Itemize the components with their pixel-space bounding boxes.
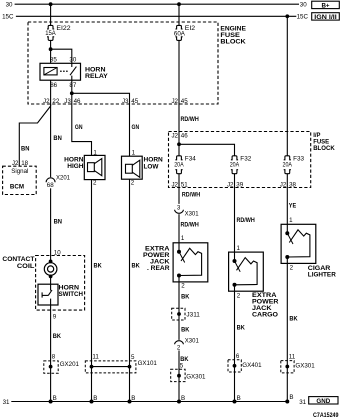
fuse F32 20A: [231, 156, 238, 174]
GND box: [309, 397, 338, 404]
connector X201: [46, 178, 55, 182]
fuse F34 20A: [175, 156, 182, 174]
svg-text:HIGH: HIGH: [67, 163, 84, 170]
wire rail30 to fuse EI22: [50, 4, 52, 25]
svg-text:2: 2: [177, 344, 181, 351]
svg-text:68: 68: [47, 182, 54, 189]
svg-text:BLOCK: BLOCK: [313, 145, 335, 152]
svg-text:1: 1: [237, 245, 241, 252]
svg-text:1: 1: [289, 217, 293, 224]
wire node to F34: [178, 144, 180, 156]
svg-text:31: 31: [299, 399, 306, 406]
wire jack cargo to GX401: [234, 285, 236, 402]
svg-text:C7A15249: C7A15249: [313, 412, 339, 419]
svg-text:2: 2: [237, 293, 241, 300]
svg-text:20A: 20A: [230, 161, 240, 168]
svg-text:F34: F34: [185, 155, 197, 162]
svg-text:30: 30: [69, 57, 76, 64]
horn high B1: [84, 155, 105, 179]
horn switch SW1 box: [38, 284, 58, 305]
svg-text:J311: J311: [186, 312, 200, 319]
inline connector J311: [172, 308, 185, 320]
node F34 feed: [177, 142, 181, 146]
ground splice GX301: [171, 369, 185, 381]
wire F32 to J2|39: [234, 174, 236, 261]
svg-text:B: B: [93, 395, 97, 402]
svg-text:GX301: GX301: [295, 362, 315, 369]
svg-text:J2: J2: [227, 182, 234, 189]
svg-text:IGN I/II: IGN I/II: [314, 14, 337, 21]
svg-text:2: 2: [290, 264, 294, 271]
svg-text:J2: J2: [43, 98, 50, 105]
svg-text:BK: BK: [237, 325, 245, 332]
svg-text:BCM: BCM: [10, 184, 24, 191]
svg-text:Signal: Signal: [11, 168, 28, 175]
svg-text:J3: J3: [64, 98, 71, 105]
svg-text:8: 8: [52, 354, 56, 361]
svg-text:85: 85: [50, 57, 57, 64]
relay link dots: [60, 70, 62, 72]
svg-text:RD/WH: RD/WH: [182, 192, 200, 199]
svg-text:30: 30: [6, 2, 13, 9]
wire rail 15C: [16, 15, 296, 17]
node on rail 31 end: [285, 400, 289, 404]
wire X201 to contact coil: [50, 188, 52, 261]
svg-text:BK: BK: [53, 333, 61, 340]
fuse EI2 60A: [175, 25, 182, 40]
svg-text:GX301: GX301: [186, 373, 206, 380]
wire horn switch down to GX201: [50, 299, 52, 402]
svg-text:BK: BK: [132, 262, 140, 269]
node on rail 31: [90, 400, 94, 404]
svg-text:. REAR: . REAR: [147, 265, 170, 272]
svg-text:60A: 60A: [174, 30, 186, 37]
wire F33 to J2|38: [286, 174, 288, 234]
svg-text:11: 11: [289, 354, 296, 361]
svg-text:B: B: [237, 395, 241, 402]
svg-text:45: 45: [181, 98, 188, 105]
svg-text:J3: J3: [122, 98, 129, 105]
svg-text:LIGHTER: LIGHTER: [308, 272, 336, 279]
wire rail 31 (ground): [11, 401, 288, 403]
svg-text:LOW: LOW: [144, 163, 160, 170]
svg-text:15C: 15C: [297, 14, 309, 21]
svg-text:BN: BN: [21, 146, 30, 153]
wire J2|22 fork to BCM: [19, 106, 50, 166]
relay switch: [71, 63, 73, 67]
I/P fuse block dashed box: [169, 132, 311, 188]
ground splice GX201: [44, 361, 58, 373]
svg-text:BK: BK: [289, 315, 297, 322]
wire relay 86 down (J2|22): [50, 80, 52, 106]
svg-text:GX401: GX401: [242, 362, 262, 369]
extra power jack cargo box: [229, 252, 264, 291]
svg-text:BLOCK: BLOCK: [220, 39, 246, 46]
svg-text:RD/WH: RD/WH: [237, 217, 255, 224]
svg-text:30: 30: [300, 2, 307, 9]
wire 15C to F33: [286, 16, 288, 156]
wire cigar lighter to GX301: [286, 257, 288, 402]
ENGINE FUSE BLOCK dashed box: [28, 22, 218, 104]
svg-text:20A: 20A: [174, 161, 184, 168]
svg-text:5: 5: [131, 354, 135, 361]
svg-text:86: 86: [50, 82, 57, 89]
node rail30-EI2: [177, 2, 181, 6]
svg-text:B: B: [131, 395, 135, 402]
fuse F33 20A: [284, 156, 291, 174]
svg-text:CARGO: CARGO: [252, 312, 278, 319]
svg-text:1: 1: [181, 235, 185, 242]
svg-text:BK: BK: [181, 293, 189, 300]
wire J3|46 to horn high: [72, 104, 92, 155]
svg-text:GX101: GX101: [138, 360, 158, 367]
wire J2|22 down to X201: [50, 104, 52, 177]
ground splice GX301 (right): [281, 361, 294, 373]
svg-text:B+: B+: [321, 2, 329, 9]
svg-text:RELAY: RELAY: [85, 73, 109, 80]
svg-text:EI2: EI2: [185, 25, 196, 32]
ground splice GX101: [85, 361, 136, 373]
wire rail30 to fuse EI2: [178, 4, 180, 25]
wire branch to relay pin 30: [51, 49, 72, 63]
node rail15C-F33: [285, 14, 289, 18]
svg-text:F32: F32: [240, 155, 252, 162]
extra power jack rear box: [173, 243, 208, 282]
IGN I/II box: [312, 13, 340, 20]
svg-text:46: 46: [74, 98, 81, 105]
wire fuse EI2 down to I/P block (J2|45): [178, 40, 180, 144]
svg-text:GN: GN: [75, 124, 83, 131]
svg-text:45: 45: [131, 98, 138, 105]
svg-text:X301: X301: [185, 338, 200, 345]
wire feed to F32: [179, 144, 235, 156]
svg-text:J2: J2: [171, 182, 178, 189]
svg-text:J2: J2: [280, 182, 287, 189]
svg-text:22: 22: [52, 98, 59, 105]
svg-text:3: 3: [177, 204, 181, 211]
wire X301 to jack rear: [178, 214, 180, 252]
svg-text:BK: BK: [94, 262, 102, 269]
horn low B2: [122, 156, 143, 179]
svg-text:SWITCH: SWITCH: [59, 291, 84, 298]
svg-text:RD/WH: RD/WH: [181, 222, 199, 229]
svg-text:COIL: COIL: [17, 263, 35, 270]
svg-text:F33: F33: [293, 155, 305, 162]
svg-text:10: 10: [54, 249, 61, 256]
svg-text:CONTACT: CONTACT: [2, 256, 34, 263]
svg-text:15A: 15A: [45, 30, 56, 37]
svg-text:2: 2: [131, 180, 135, 187]
wire jack rear to GX301: [178, 276, 180, 340]
wire coil to horn switch: [50, 276, 52, 290]
wire rail 30: [15, 3, 299, 5]
ground splice GX401: [228, 360, 241, 372]
node on rail 31: [233, 400, 237, 404]
svg-text:BN: BN: [53, 135, 62, 142]
svg-text:6: 6: [236, 353, 240, 360]
node rail30-EI22: [49, 2, 53, 6]
svg-text:5: 5: [180, 362, 184, 369]
wire J3|45 to horn low: [129, 104, 131, 156]
svg-text:2: 2: [181, 282, 185, 289]
svg-text:RD/WH: RD/WH: [181, 116, 199, 123]
svg-text:X301: X301: [185, 211, 200, 218]
B+ box: [312, 1, 340, 8]
svg-text:BK: BK: [181, 327, 189, 334]
node on rail 31: [128, 400, 132, 404]
svg-text:51: 51: [181, 182, 188, 189]
svg-text:1: 1: [132, 150, 136, 157]
svg-text:GX201: GX201: [60, 361, 80, 368]
svg-text:B: B: [181, 395, 185, 402]
relay U: horn relay box: [40, 63, 81, 80]
wire F34 to J2|51: [178, 174, 180, 204]
connector X301 pin 2: [175, 341, 184, 344]
wire X301-2 to GX301: [178, 351, 180, 402]
svg-text:J2: J2: [171, 133, 178, 140]
svg-text:YE: YE: [289, 203, 297, 210]
wire branch to J3|45: [72, 93, 130, 104]
svg-text:38: 38: [289, 182, 296, 189]
wire fuse EI22 to node: [50, 40, 52, 63]
BCM dashed box: [3, 166, 37, 194]
svg-text:15C: 15C: [2, 14, 14, 21]
svg-text:GND: GND: [316, 398, 330, 405]
cigar lighter box: [281, 224, 316, 263]
wire relay 87 down: [71, 80, 73, 104]
svg-text:BN: BN: [54, 219, 63, 226]
contact coil symbol: [49, 260, 53, 264]
svg-text:46: 46: [181, 133, 188, 140]
svg-text:20A: 20A: [283, 161, 293, 168]
svg-text:9: 9: [53, 314, 57, 321]
wire horn high to GX101 pin 11: [91, 180, 93, 402]
contact coil dashed box: [36, 256, 85, 311]
svg-text:X201: X201: [56, 174, 71, 181]
svg-text:39: 39: [236, 182, 243, 189]
svg-text:11: 11: [92, 353, 99, 360]
svg-text:EI22: EI22: [56, 25, 71, 32]
svg-text:B: B: [53, 395, 57, 402]
node relay 87 split: [70, 91, 74, 95]
svg-text:J2: J2: [171, 98, 178, 105]
svg-text:31: 31: [3, 399, 10, 406]
relay coil: [44, 68, 57, 75]
wire horn low to GX101 pin 5: [129, 179, 131, 401]
svg-text:2: 2: [93, 180, 97, 187]
fuse EI22 15A: [47, 25, 54, 40]
svg-text:B: B: [289, 394, 293, 401]
node on rail 31: [49, 400, 53, 404]
node EI22 out: [49, 47, 53, 51]
svg-text:GN: GN: [132, 124, 140, 131]
horn switch contact: [41, 292, 43, 297]
svg-text:87: 87: [69, 82, 76, 89]
node on rail 31: [177, 400, 181, 404]
